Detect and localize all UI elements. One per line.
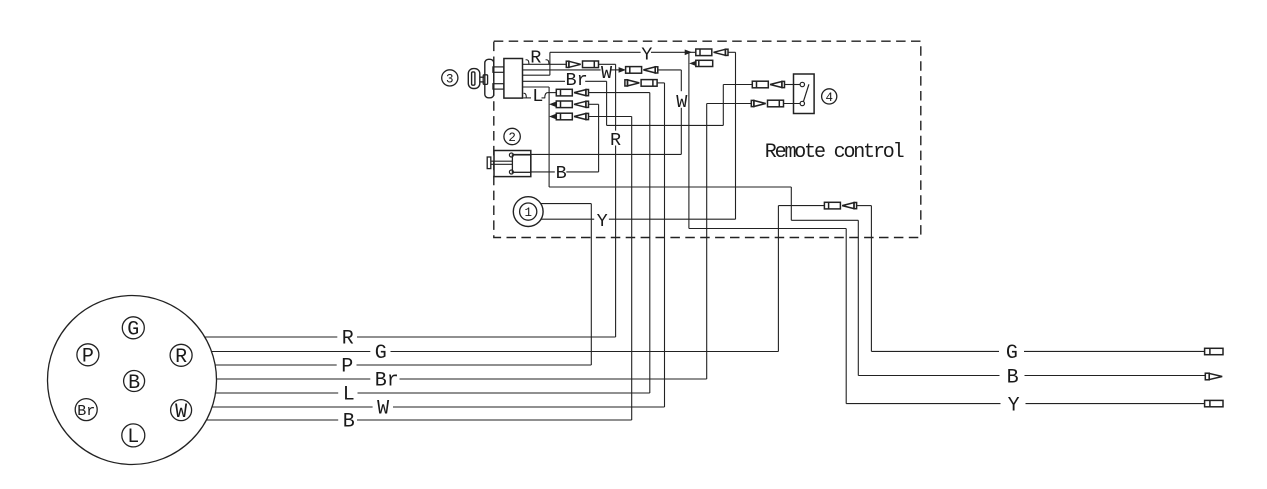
connector CN2 (W net) xyxy=(616,67,682,74)
svg-text:W: W xyxy=(676,92,688,113)
connector CN3 (row1, L net) xyxy=(548,89,650,96)
svg-text:Remote control: Remote control xyxy=(765,141,904,164)
wire Y branch horizontal xyxy=(689,228,846,230)
switch U4 terminal lower xyxy=(800,101,804,105)
key K1 head xyxy=(468,69,480,89)
wire B output vertical xyxy=(857,220,859,375)
wire from buzzer upper xyxy=(541,203,591,205)
pin R xyxy=(170,344,192,369)
lock-to-switch tab upper xyxy=(493,67,504,72)
key K1 shaft xyxy=(480,75,488,85)
svg-text:4: 4 xyxy=(825,91,833,105)
wire fan L xyxy=(216,384,650,407)
svg-text:R: R xyxy=(610,130,621,151)
wire Br jog vertical to switch 4 xyxy=(722,85,724,126)
wire Y output vertical xyxy=(845,229,847,404)
label: Remote control xyxy=(765,141,904,164)
wire Y top corner vertical xyxy=(735,52,737,219)
connector CN5 (row3) xyxy=(550,113,632,120)
wire fan G xyxy=(212,342,779,365)
connector CN1 (R wire) xyxy=(550,61,616,68)
wire fan R xyxy=(205,328,616,351)
svg-text:Br: Br xyxy=(77,403,95,420)
wire B output xyxy=(858,366,1205,389)
wire R row from switch xyxy=(523,60,550,65)
svg-text:R: R xyxy=(530,48,541,69)
wire B bus vertical xyxy=(548,87,550,187)
pin W xyxy=(171,400,192,424)
callout 1 / alarm buzzer body xyxy=(513,197,543,227)
wire Y line lower xyxy=(541,218,736,220)
connector CN10 (switch 4 lower) xyxy=(707,100,800,107)
stop switch terminal upper xyxy=(509,153,513,157)
svg-text:Br: Br xyxy=(375,370,399,393)
svg-text:B: B xyxy=(1007,366,1019,389)
connector CN8 (spare stub) xyxy=(690,60,713,66)
label W (vertical) xyxy=(676,92,688,113)
stop switch plunger xyxy=(487,157,512,169)
svg-text:L: L xyxy=(343,384,355,407)
svg-text:R: R xyxy=(342,328,354,351)
pin B xyxy=(124,371,145,395)
wire Br vertical from switch xyxy=(606,81,608,125)
svg-text:B: B xyxy=(128,372,140,395)
remote control unit dashed enclosure xyxy=(494,41,921,237)
wire row3 vertical to fan B xyxy=(631,117,633,421)
svg-text:R: R xyxy=(175,346,187,369)
wire fan B xyxy=(206,411,631,434)
terminal lug Y xyxy=(1205,400,1223,406)
wire Y output xyxy=(846,394,1204,417)
svg-text:B: B xyxy=(556,163,567,184)
wire G output xyxy=(871,342,1204,365)
label B (stop switch wire) xyxy=(556,163,567,184)
key lock barrel xyxy=(485,59,494,98)
label W (switch output) xyxy=(601,63,613,84)
connector CN11 (G wire) xyxy=(778,202,871,209)
wire B bus step down xyxy=(790,187,792,220)
wire switch row5 xyxy=(523,86,550,88)
pin L xyxy=(122,424,145,449)
wire G output vertical xyxy=(870,206,872,352)
wire Br fan vertical xyxy=(706,104,708,380)
pin Br xyxy=(75,399,97,421)
connector CN4 (row2) xyxy=(550,101,599,108)
7-pin connector disc xyxy=(48,296,217,465)
junction vertical at switch outputs xyxy=(549,52,551,75)
wire switch row3 xyxy=(523,74,550,76)
terminal bullet B xyxy=(1205,373,1222,380)
wire L row from switch xyxy=(523,93,548,98)
terminal lug G xyxy=(1205,348,1223,354)
label Y (buzzer line) xyxy=(597,211,608,232)
callout 3 xyxy=(442,70,458,87)
label Br (switch output) xyxy=(566,70,588,91)
svg-text:1: 1 xyxy=(524,206,532,220)
stop switch terminal lower xyxy=(509,170,513,174)
pin P xyxy=(77,344,99,369)
wire Br from switch xyxy=(523,80,607,82)
stop switch U2 contact block xyxy=(512,155,531,172)
wire W fan vertical xyxy=(664,83,666,407)
wire Y top line xyxy=(550,51,736,53)
switch U4 body xyxy=(794,74,815,114)
svg-text:B: B xyxy=(343,411,355,434)
wire fan W xyxy=(212,398,664,421)
wire row1 vertical to fan L xyxy=(649,93,651,393)
wire W net to stop switch xyxy=(513,153,681,155)
callout 2 xyxy=(504,128,520,145)
wire row2 vertical to B wire xyxy=(598,104,600,172)
pin G xyxy=(122,317,144,342)
switch U4 terminal upper xyxy=(800,82,804,86)
wire W net vertical xyxy=(680,70,682,154)
wire B bus step right xyxy=(791,219,858,221)
wire R net vertical xyxy=(615,64,617,337)
connector CN9 (switch 4 upper) xyxy=(723,81,800,88)
wire Br jog horizontal xyxy=(607,124,724,126)
svg-text:Y: Y xyxy=(641,44,652,65)
switch U4 blade xyxy=(804,84,809,101)
svg-text:P: P xyxy=(82,346,94,369)
connector CN6 (W fan feed) xyxy=(625,80,665,87)
svg-text:G: G xyxy=(375,342,387,365)
svg-text:W: W xyxy=(175,401,187,424)
svg-text:2: 2 xyxy=(508,131,516,145)
wire W from switch xyxy=(523,69,616,71)
lock-to-switch tab lower xyxy=(493,84,504,89)
callout 4 xyxy=(822,89,837,105)
label R (vertical) xyxy=(610,130,621,151)
label R (switch output) xyxy=(530,48,541,69)
svg-text:P: P xyxy=(341,356,353,379)
wire fan P xyxy=(215,356,591,379)
wire G vertical from fan xyxy=(777,206,779,352)
svg-text:3: 3 xyxy=(446,72,454,86)
svg-text:Br: Br xyxy=(566,70,588,91)
svg-text:L: L xyxy=(532,86,543,107)
label Y (top line) xyxy=(641,44,652,65)
stop switch U2 outer body xyxy=(494,151,531,177)
junction arrow on Y line xyxy=(685,50,691,55)
svg-text:Y: Y xyxy=(1008,394,1020,417)
wire P net vertical xyxy=(590,204,592,365)
svg-text:W: W xyxy=(377,398,389,421)
wire fan Br xyxy=(217,370,707,393)
wire B bus horizontal xyxy=(549,186,791,188)
svg-text:Y: Y xyxy=(597,211,608,232)
wire B from stop switch xyxy=(531,171,598,173)
wire Y branch vertical xyxy=(688,52,690,228)
svg-text:G: G xyxy=(1006,342,1018,365)
svg-text:L: L xyxy=(127,426,139,449)
ignition switch U3 body xyxy=(504,59,523,99)
svg-text:G: G xyxy=(127,319,139,342)
label L (switch output) xyxy=(532,86,543,107)
connector CN7 (Y top line) xyxy=(696,49,728,56)
